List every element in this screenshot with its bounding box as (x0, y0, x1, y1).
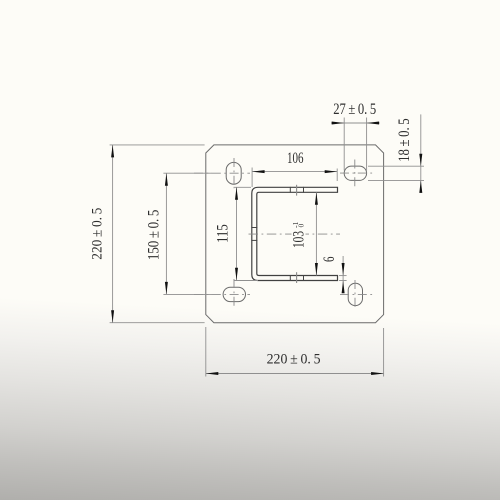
dim 18 arrow lower (419, 180, 422, 193)
dim 106 line (252, 171, 337, 173)
main horizontal centerline (249, 233, 292, 235)
dim 115 line (236, 187, 238, 280)
svg-text:150 ± 0. 5: 150 ± 0. 5 (145, 210, 162, 261)
svg-text:220 ± 0. 5: 220 ± 0. 5 (267, 350, 321, 367)
dim 27 extension lines (343, 118, 345, 171)
dim 106 extension lines (251, 168, 253, 188)
dim 103 line (315, 192, 317, 275)
dim 6 line (342, 256, 344, 293)
centerline slot top-right horizontal (340, 172, 373, 174)
svg-text:115: 115 (214, 224, 231, 243)
centerline slot bottom-right vertical (354, 280, 356, 310)
dim 220 bottom arrow left (206, 372, 219, 375)
dim 6 arrow lower (342, 281, 345, 294)
dim 103 arrow top (315, 192, 318, 205)
weld tick marks top strip (289, 187, 291, 193)
dim 220 left arrow top (111, 145, 114, 158)
dim 150 arrow bottom (165, 282, 168, 295)
dim 27 arrow left (332, 122, 345, 125)
dim 103 text with tolerance (290, 221, 307, 248)
centerline slot bottom-left horizontal (194, 293, 250, 295)
svg-text:103: 103 (290, 231, 307, 248)
centerline slot bottom-left vertical (233, 279, 235, 309)
svg-text:6: 6 (321, 257, 338, 263)
centerline slot bottom-right horizontal (340, 293, 373, 295)
dim 115 arrow bottom (235, 268, 238, 281)
centerline slot top-left horizontal (194, 172, 250, 174)
weld tick marks bottom strip (289, 275, 291, 281)
dim 6 extension lines (339, 275, 347, 277)
dim 220 bottom arrow right (371, 372, 384, 375)
dim 18 arrow upper (419, 154, 422, 167)
dim 18 extension lines (368, 165, 424, 167)
centerline slot top-left vertical (233, 158, 235, 189)
dim 220 left line (112, 145, 114, 323)
U-channel bracket (252, 187, 338, 280)
centerline slot top-right vertical (354, 160, 356, 187)
dim 6 arrow upper (342, 263, 345, 276)
slot bottom-right (348, 283, 362, 305)
vertical centerline crossing bottom strip (296, 272, 298, 283)
dim 106 arrow right (325, 170, 338, 173)
dim 220 left arrow bottom (111, 310, 114, 323)
weld tick marks left strip (251, 227, 257, 229)
svg-text:220 ± 0. 5: 220 ± 0. 5 (88, 208, 105, 260)
dim 220 left extension lines (110, 144, 205, 146)
slot top-right (344, 166, 366, 180)
dim 150 extension lines (163, 172, 212, 174)
dim 27 line (331, 122, 379, 124)
slot top-left (226, 162, 241, 184)
dim 115 extension lines (234, 186, 252, 188)
dim 27 arrow right (367, 122, 380, 125)
plate outline (206, 145, 384, 323)
dim 115 arrow top (235, 187, 238, 200)
vertical centerline crossing top strip (296, 185, 298, 196)
slot bottom-left (223, 287, 245, 301)
dim 220 bottom extension lines (205, 327, 207, 377)
dim 150 line (165, 173, 167, 294)
svg-text:106: 106 (287, 150, 304, 167)
svg-text:0: 0 (296, 223, 305, 227)
svg-text:27 ± 0. 5: 27 ± 0. 5 (333, 101, 376, 118)
dim 220 bottom line (206, 373, 384, 375)
dim 150 arrow top (165, 173, 168, 186)
dim 103 arrow bottom (315, 263, 318, 276)
dim 18 line (420, 114, 422, 192)
dim 106 arrow left (252, 170, 265, 173)
svg-text:18 ± 0. 5: 18 ± 0. 5 (396, 118, 413, 162)
